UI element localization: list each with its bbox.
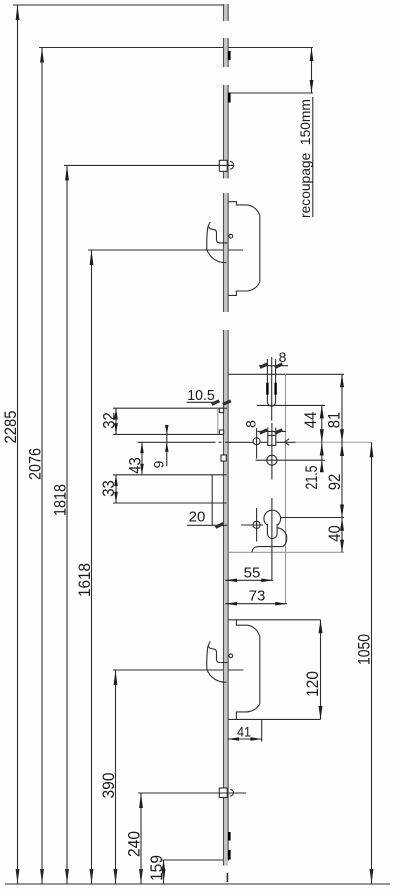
faceplate rail segment 2: [224, 38, 230, 67]
dimension 32 arrows: [115, 408, 117, 434]
faceplate rail bottom stub: [226, 873, 228, 882]
svg-text:20: 20: [189, 509, 206, 526]
dimension line 81/92/40 x=342: [341, 374, 343, 552]
svg-text:10.5: 10.5: [187, 387, 215, 404]
roller cam arc lower: [230, 790, 233, 797]
svg-text:1050: 1050: [356, 634, 374, 665]
faceplate rail segment 3: [224, 85, 230, 179]
main centerline y=442.3: [138, 441, 216, 443]
strike box top line y=408.2: [113, 407, 227, 409]
faceplate rail segment 5: [224, 330, 230, 866]
dimension 120 line and arrows: [320, 620, 322, 720]
33 box top line y=474.8: [113, 474, 227, 476]
central lock case top edge: [228, 373, 344, 375]
cylinder horizontal extension y=517.5: [281, 517, 344, 519]
extension line 1818 y=165.4 (roller cam centerline): [64, 164, 234, 166]
svg-text:21.5: 21.5: [303, 466, 321, 490]
cylinder guard curve: [252, 528, 287, 553]
dimension 55 line and arrows: [225, 579, 273, 581]
svg-text:92: 92: [326, 474, 344, 491]
faceplate rail segment 1: [224, 4, 229, 21]
upper hook bolt: [208, 226, 228, 243]
lower hook lock case outline: [236, 620, 259, 720]
cylinder fixing screw circle: [253, 521, 260, 528]
dimension 159 vertical line: [163, 860, 165, 884]
svg-text:55: 55: [244, 565, 261, 582]
dimension 43 line and arrows: [141, 442, 143, 475]
upper hook lock case outline: [228, 202, 260, 296]
svg-text:81: 81: [326, 412, 344, 429]
dimension 150mm vertical line top right: [311, 48, 313, 94]
lower hook bolt: [208, 646, 228, 663]
svg-text:1618: 1618: [76, 563, 94, 597]
svg-text:390: 390: [100, 773, 118, 799]
dimension 41 line and arrows: [228, 738, 262, 740]
svg-text:33: 33: [100, 480, 118, 497]
euro cylinder stem: [267, 524, 277, 539]
strike box corner notch bottom: [219, 430, 223, 434]
follower lower circle: [267, 455, 277, 465]
svg-text:recoupage 150mm: recoupage 150mm: [298, 99, 313, 218]
dimension 8 latch: line and slash arrows: [259, 365, 288, 367]
svg-text:120: 120: [304, 671, 322, 697]
dimension 20 line and slash arrow: [187, 524, 227, 526]
central lock case bottom edge: [228, 551, 344, 553]
svg-text:44: 44: [302, 412, 320, 429]
dimension 73 line and arrows: [225, 603, 287, 605]
strike box gray edge: [217, 408, 219, 434]
small rail notch: [221, 455, 226, 461]
extension line 150mm bottom y=93: [228, 92, 313, 94]
strike box corner notch top: [219, 408, 223, 412]
dimension 2076 vertical line: [41, 48, 43, 885]
svg-text:1818: 1818: [52, 484, 70, 516]
dimension 390 vertical line: [115, 670, 117, 884]
extension line 2076 y=47.5: [39, 47, 313, 49]
dimension line 44/21.5 x=321.8: [321, 405, 323, 471]
dimension 41 extension: [261, 719, 263, 741]
dimension 9 line and arrows: [166, 426, 168, 466]
svg-text:8: 8: [243, 420, 259, 428]
follower vertical centerline: [271, 423, 273, 480]
baseline down-arrows: [16, 869, 374, 884]
latch slot: [267, 374, 275, 406]
dimension 1618 vertical line: [91, 250, 93, 884]
lower hook lock case bottom edge: [228, 718, 320, 720]
recoupage text underline: [312, 97, 314, 217]
follower lower circle extension line y=460.2: [256, 459, 326, 461]
dimension 240 vertical line: [140, 793, 142, 884]
roller cam square lower: [219, 788, 227, 798]
svg-text:41: 41: [237, 724, 251, 740]
svg-text:2285: 2285: [2, 411, 20, 444]
svg-text:2076: 2076: [27, 448, 45, 480]
33 box bottom line y=503: [113, 502, 227, 504]
svg-text:32: 32: [101, 412, 119, 429]
strike box bottom line y=434.4: [113, 433, 221, 435]
extension line 240 y=793 (lower roller cam centerline): [138, 792, 246, 794]
dimension 33 arrows: [115, 475, 117, 503]
follower square: [268, 435, 276, 445]
latch centerline: [271, 357, 273, 421]
extension line 1618 y=250 (upper hook centerline): [88, 249, 243, 251]
follower left circle: [253, 438, 260, 445]
dimension 1050 vertical line: [371, 442, 373, 884]
latch bolt shading: [266, 383, 268, 395]
latch axis extension line y=405.4: [257, 404, 325, 406]
dimension 10.5 line and slash arrows: [187, 401, 220, 403]
faceplate rail segment 4: [224, 193, 229, 312]
cylinder vertical centerline: [271, 498, 273, 580]
svg-text:43: 43: [127, 457, 145, 474]
euro cylinder circle: [264, 510, 281, 527]
dimension 2285 vertical line: [17, 5, 19, 884]
follower extension ticks: [267, 428, 269, 436]
extension line 2285 (rail top) y=5: [13, 4, 226, 6]
latch extension ticks: [266, 359, 268, 374]
33 box vertical edge x=212.2: [211, 475, 213, 526]
roller cam arc upper: [230, 161, 234, 169]
dimension 8 follower: line and slash arrows: [258, 430, 287, 432]
lower hook lock case top edge: [228, 619, 320, 621]
centerline open arrow at case edge: [285, 439, 290, 446]
svg-text:9: 9: [151, 460, 167, 468]
extension line 159 y=860: [161, 859, 229, 861]
svg-text:240: 240: [126, 831, 144, 857]
central lock case right edge: [285, 374, 287, 603]
baseline: [5, 883, 390, 885]
svg-text:73: 73: [249, 588, 266, 605]
upper hook pivot: [229, 234, 233, 238]
lower hook pivot: [229, 654, 233, 658]
svg-text:8: 8: [279, 349, 287, 365]
extension line 390 y=670 (lower hook centerline): [113, 669, 244, 671]
svg-text:159: 159: [148, 855, 166, 881]
dimension 1818 vertical line: [66, 165, 68, 884]
roller cam square upper: [219, 160, 227, 171]
svg-text:40: 40: [326, 525, 344, 542]
